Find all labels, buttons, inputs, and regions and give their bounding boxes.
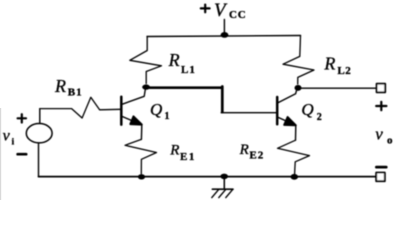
wire Vcc stub: [223, 20, 225, 36]
svg-text:o: o: [387, 135, 393, 147]
svg-text:v: v: [375, 125, 383, 144]
wire source bottom riser: [38, 144, 40, 177]
svg-text:v: v: [3, 127, 11, 144]
svg-text:Q: Q: [150, 100, 162, 119]
resistor RL1: [130, 37, 162, 84]
svg-text:E2: E2: [249, 150, 264, 162]
resistor RE2: [278, 140, 310, 174]
transistor Q1: [121, 89, 145, 125]
terminal output top: [377, 84, 386, 93]
node ground junction dot: [220, 174, 228, 180]
svg-text:i: i: [12, 136, 15, 146]
label plus source: [18, 114, 26, 122]
label minus output: [376, 166, 386, 169]
resistor RB1 with wire from source: [40, 97, 121, 118]
svg-text:B1: B1: [68, 87, 83, 99]
scan artifact left edge: [0, 108, 2, 200]
wire interstage horizontal: [146, 86, 221, 89]
node RE1 to ground rail dot: [138, 174, 145, 179]
label RL2: [323, 54, 351, 78]
node collector Q2 junction dot: [295, 85, 302, 91]
svg-text:CC: CC: [229, 9, 247, 21]
label RL1: [168, 50, 196, 76]
wire source top stub: [39, 109, 41, 123]
svg-text:R: R: [323, 54, 335, 74]
wire bottom rail: [39, 176, 377, 178]
resistor RL2: [283, 36, 314, 85]
node RE2 to rail dot: [291, 174, 299, 180]
svg-text:E1: E1: [180, 151, 196, 163]
resistor RE1: [125, 139, 157, 173]
wire emitter Q1 stub: [140, 125, 142, 139]
label RB1: [54, 76, 83, 99]
svg-text:R: R: [239, 142, 249, 158]
svg-text:V: V: [214, 0, 228, 21]
node Vcc junction dot: [221, 32, 229, 38]
label RE2: [239, 142, 265, 161]
svg-text:L1: L1: [181, 64, 196, 76]
svg-text:R: R: [169, 143, 179, 159]
label vo: [375, 125, 393, 147]
node collector Q1 junction dot: [142, 84, 150, 89]
svg-text:L2: L2: [337, 65, 351, 77]
wire interstage vertical: [221, 87, 224, 113]
source vi: [26, 124, 52, 143]
terminal output bottom: [376, 173, 385, 182]
svg-text:R: R: [54, 76, 66, 96]
label vi: [3, 127, 15, 146]
svg-text:R: R: [168, 50, 180, 70]
transistor Q2: [277, 91, 296, 126]
label +Vcc: [201, 0, 247, 21]
label plus output: [376, 102, 386, 110]
svg-text:Q: Q: [301, 100, 313, 119]
label minus source: [18, 153, 27, 156]
wire top supply rail: [147, 36, 301, 37]
label Q2: [301, 100, 321, 123]
wire output top: [298, 87, 377, 89]
label RE1: [169, 143, 196, 163]
svg-text:1: 1: [165, 111, 170, 122]
wire emitter Q2 stub: [295, 125, 297, 140]
svg-text:2: 2: [317, 112, 322, 123]
label Q1: [150, 100, 170, 122]
ground: [212, 177, 233, 198]
wire base lead Q2: [221, 112, 276, 114]
